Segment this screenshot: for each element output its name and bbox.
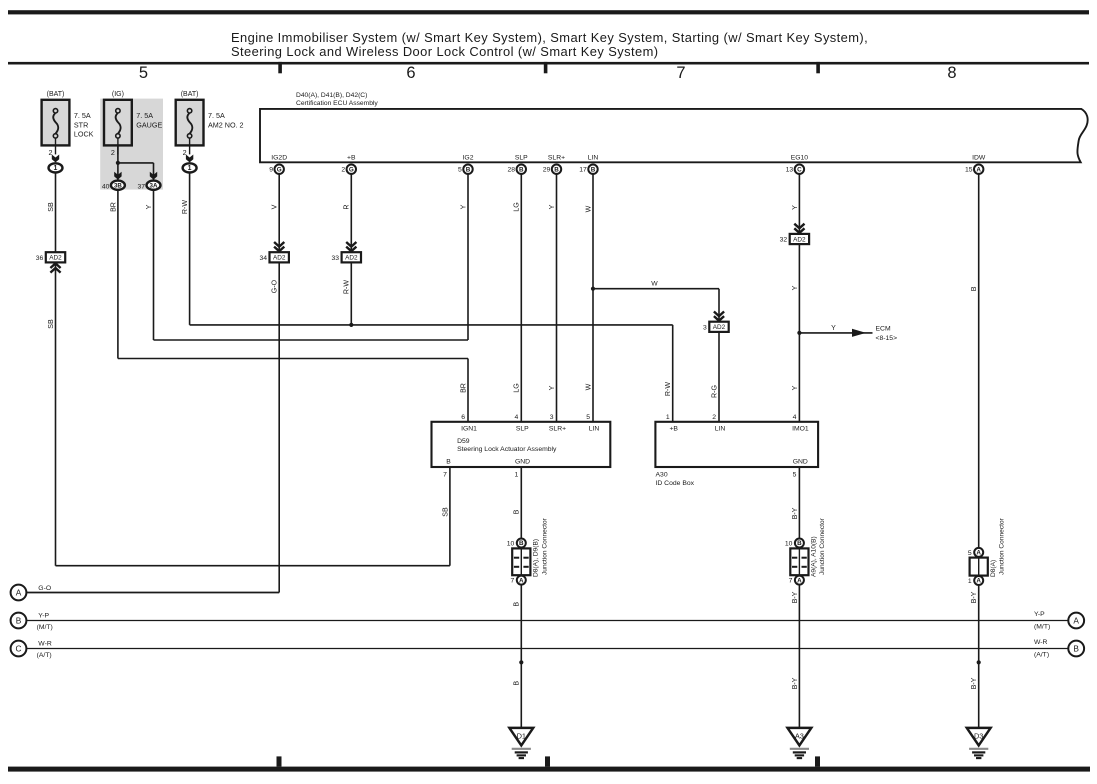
svg-text:B-Y: B-Y	[791, 677, 799, 689]
svg-text:9: 9	[269, 167, 273, 174]
svg-text:1: 1	[54, 165, 58, 172]
svg-text:D8(A), D9(B): D8(A), D9(B)	[533, 539, 540, 577]
svg-text:AD2: AD2	[273, 255, 286, 262]
svg-text:A9(A), A10(B): A9(A), A10(B)	[811, 536, 818, 577]
svg-text:B-Y: B-Y	[791, 507, 799, 519]
svg-text:1: 1	[666, 414, 670, 421]
svg-text:AD2: AD2	[713, 324, 726, 331]
svg-text:IG2D: IG2D	[271, 155, 287, 162]
svg-text:Y: Y	[459, 204, 467, 209]
svg-text:D8(A): D8(A)	[990, 560, 997, 577]
svg-text:LG: LG	[513, 202, 521, 211]
svg-text:Y: Y	[791, 205, 799, 210]
svg-text:C: C	[16, 644, 22, 654]
svg-text:G-O: G-O	[38, 585, 51, 592]
svg-text:LIN: LIN	[715, 425, 726, 432]
svg-text:5: 5	[586, 414, 590, 421]
svg-text:1: 1	[188, 165, 192, 172]
svg-text:Y-P: Y-P	[38, 612, 49, 619]
svg-text:7. 5A: 7. 5A	[74, 111, 91, 120]
svg-text:28: 28	[508, 167, 516, 174]
svg-text:R-W: R-W	[664, 382, 672, 396]
svg-text:IDW: IDW	[972, 155, 986, 162]
svg-text:B-Y: B-Y	[791, 591, 799, 603]
svg-text:5: 5	[139, 64, 148, 82]
svg-text:BR: BR	[459, 383, 467, 393]
svg-text:GND: GND	[515, 459, 530, 466]
svg-text:BR: BR	[109, 202, 117, 212]
svg-text:D3: D3	[974, 732, 983, 741]
svg-text:R-G: R-G	[710, 385, 718, 398]
svg-text:Y: Y	[791, 285, 799, 290]
svg-text:B: B	[446, 459, 451, 466]
svg-text:1: 1	[515, 472, 519, 479]
svg-text:A3: A3	[795, 732, 804, 741]
svg-text:29: 29	[543, 167, 551, 174]
svg-text:13: 13	[786, 167, 794, 174]
svg-text:ID Code Box: ID Code Box	[656, 480, 695, 487]
svg-text:R-W: R-W	[181, 200, 189, 214]
svg-text:5: 5	[968, 550, 972, 557]
svg-text:+B: +B	[669, 425, 678, 432]
svg-text:AM2 NO. 2: AM2 NO. 2	[208, 120, 244, 129]
svg-text:D40(A), D41(B), D42(C): D40(A), D41(B), D42(C)	[296, 92, 367, 99]
svg-text:G: G	[349, 166, 354, 173]
svg-text:(IG): (IG)	[112, 91, 124, 98]
svg-text:LIN: LIN	[588, 155, 599, 162]
svg-text:(A/T): (A/T)	[1034, 652, 1049, 659]
svg-text:40: 40	[102, 184, 110, 191]
svg-text:Steering Lock and Wireless Doo: Steering Lock and Wireless Door Lock Con…	[231, 44, 658, 59]
svg-text:W-R: W-R	[38, 640, 52, 647]
svg-text:A: A	[519, 577, 524, 584]
svg-text:A: A	[976, 578, 981, 585]
svg-text:AD2: AD2	[49, 255, 62, 262]
svg-text:A30: A30	[656, 472, 668, 479]
svg-text:B-Y: B-Y	[970, 677, 978, 689]
svg-text:(BAT): (BAT)	[47, 91, 65, 98]
svg-text:SLP: SLP	[516, 425, 529, 432]
svg-text:Junction Connector: Junction Connector	[999, 517, 1006, 575]
svg-text:B: B	[16, 616, 22, 626]
svg-text:2: 2	[111, 148, 115, 157]
svg-text:W-R: W-R	[1034, 639, 1048, 646]
svg-text:(M/T): (M/T)	[37, 624, 53, 631]
svg-text:SLR+: SLR+	[549, 425, 566, 432]
svg-text:G: G	[277, 166, 282, 173]
svg-text:37: 37	[137, 184, 145, 191]
svg-text:7: 7	[511, 578, 515, 585]
svg-text:2: 2	[712, 414, 716, 421]
svg-text:W: W	[584, 383, 592, 390]
svg-text:33: 33	[332, 255, 340, 262]
svg-text:B: B	[1073, 644, 1079, 654]
svg-text:Y: Y	[548, 385, 556, 390]
svg-text:10: 10	[785, 541, 793, 548]
svg-text:17: 17	[579, 167, 587, 174]
svg-text:SB: SB	[47, 319, 55, 329]
svg-text:5: 5	[793, 472, 797, 479]
svg-text:R-W: R-W	[343, 280, 351, 294]
svg-text:8: 8	[947, 64, 956, 82]
svg-text:4: 4	[515, 414, 519, 421]
svg-text:6: 6	[406, 64, 415, 82]
svg-text:B: B	[591, 166, 596, 173]
svg-text:B: B	[970, 286, 978, 291]
svg-text:34: 34	[259, 255, 267, 262]
svg-text:IMO1: IMO1	[792, 425, 809, 432]
svg-text:Junction Connector: Junction Connector	[819, 517, 826, 575]
svg-text:GAUGE: GAUGE	[136, 120, 162, 129]
svg-text:Certification ECU Assembly: Certification ECU Assembly	[296, 100, 378, 107]
svg-text:3: 3	[550, 414, 554, 421]
svg-text:B-Y: B-Y	[970, 591, 978, 603]
svg-text:C: C	[797, 166, 802, 173]
svg-text:LG: LG	[513, 383, 521, 392]
svg-text:Junction Connector: Junction Connector	[541, 517, 548, 575]
svg-text:2: 2	[341, 167, 345, 174]
svg-text:W: W	[584, 205, 592, 212]
svg-text:10: 10	[507, 541, 515, 548]
svg-text:6: 6	[461, 414, 465, 421]
svg-text:IGN1: IGN1	[461, 425, 477, 432]
svg-text:EG10: EG10	[791, 155, 809, 162]
svg-text:STR: STR	[74, 120, 88, 129]
svg-text:GND: GND	[793, 459, 808, 466]
svg-text:Y: Y	[548, 204, 556, 209]
svg-text:LOCK: LOCK	[74, 130, 94, 139]
svg-text:B: B	[519, 166, 524, 173]
svg-text:SB: SB	[47, 202, 55, 212]
svg-text:SLR+: SLR+	[548, 155, 565, 162]
svg-text:3B: 3B	[114, 183, 122, 190]
svg-text:7: 7	[443, 472, 447, 479]
svg-text:A: A	[976, 550, 981, 557]
svg-text:B: B	[554, 166, 559, 173]
svg-text:A: A	[16, 588, 22, 598]
svg-text:D59: D59	[457, 438, 470, 445]
svg-text:A: A	[1073, 616, 1079, 626]
svg-text:B: B	[797, 540, 802, 547]
svg-text:(M/T): (M/T)	[1034, 624, 1050, 631]
svg-text:V: V	[271, 204, 279, 209]
svg-text:AD2: AD2	[793, 236, 806, 243]
svg-text:7. 5A: 7. 5A	[136, 111, 153, 120]
svg-text:B: B	[513, 681, 521, 686]
svg-text:(BAT): (BAT)	[181, 91, 199, 98]
svg-text:7: 7	[676, 64, 685, 82]
svg-text:W: W	[651, 281, 658, 288]
svg-text:3: 3	[703, 324, 707, 331]
svg-text:4: 4	[793, 414, 797, 421]
svg-text:<8-15>: <8-15>	[876, 335, 898, 342]
svg-text:R: R	[343, 204, 351, 209]
svg-text:Y: Y	[145, 204, 153, 209]
svg-text:LIN: LIN	[589, 425, 600, 432]
svg-text:SLP: SLP	[515, 155, 528, 162]
svg-text:B: B	[519, 540, 524, 547]
svg-text:D1: D1	[517, 732, 526, 741]
svg-text:32: 32	[780, 237, 788, 244]
svg-text:B: B	[466, 166, 471, 173]
svg-text:ECM: ECM	[876, 326, 891, 333]
svg-text:G-O: G-O	[271, 279, 279, 293]
svg-text:3A: 3A	[150, 183, 158, 190]
svg-text:15: 15	[965, 167, 973, 174]
svg-text:A: A	[797, 577, 802, 584]
svg-text:Y-P: Y-P	[1034, 611, 1045, 618]
svg-text:Y: Y	[831, 325, 836, 332]
svg-text:B: B	[513, 509, 521, 514]
svg-text:+B: +B	[347, 155, 356, 162]
svg-text:7. 5A: 7. 5A	[208, 111, 225, 120]
svg-text:Steering Lock Actuator Assembl: Steering Lock Actuator Assembly	[457, 446, 557, 453]
svg-text:7: 7	[789, 578, 793, 585]
svg-text:5: 5	[458, 167, 462, 174]
svg-text:B: B	[513, 602, 521, 607]
svg-text:A: A	[976, 166, 981, 173]
svg-text:(A/T): (A/T)	[37, 652, 52, 659]
svg-text:1: 1	[968, 578, 972, 585]
svg-text:SB: SB	[441, 507, 449, 517]
svg-text:Y: Y	[791, 385, 799, 390]
svg-text:IG2: IG2	[463, 155, 474, 162]
svg-text:AD2: AD2	[345, 255, 358, 262]
svg-text:36: 36	[36, 255, 44, 262]
